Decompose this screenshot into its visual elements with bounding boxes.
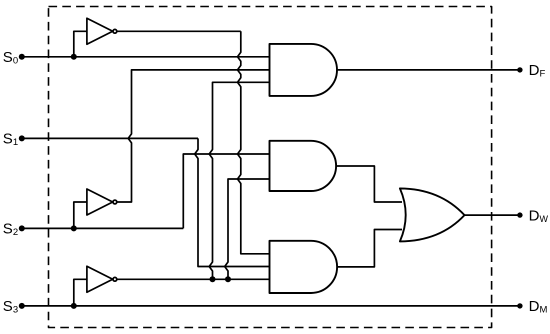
node junction on S3 [71,303,77,309]
wire S1 vertical with hop, to AND3 input 2 [195,138,270,266]
wire S0' vertical with hops, to AND3 input 1 [238,31,270,254]
wire S2 horizontal [22,227,184,229]
svg-text:S2: S2 [3,221,18,239]
wire DF output [337,69,520,71]
node junction S3' riser 1 [210,276,216,282]
node DM terminal [517,303,522,308]
wire S3 / DM horizontal [22,305,520,307]
svg-text:DM: DM [529,298,548,316]
svg-text:S0: S0 [3,49,18,67]
node S3 terminal [19,303,25,309]
wire inverter U3 output to AND3 input 3 [117,278,270,280]
dashed enclosure border [49,7,492,328]
wire S3' riser 1 with hops, to AND1 input 3 [209,82,269,279]
wire AND3 output to OR input 2 [337,230,402,267]
inverter U1 (S0) [87,18,113,44]
node DW terminal [517,212,522,217]
OR gate O1 [400,188,465,241]
wire inverter U1 input (from S0 junction) [74,31,87,57]
wire inverter U1 output to vertical drop [117,30,241,32]
svg-text:DF: DF [529,62,546,80]
node junction on S2 [71,225,77,231]
inverter U3 (S3) [87,266,113,292]
node junction S3' riser 2 [225,276,231,282]
AND gate A1 (top) [270,44,338,96]
node S2 terminal [19,225,25,231]
wire inverter U3 input (from S3 junction) [74,279,87,306]
wire AND2 output to OR input 1 [336,166,402,202]
node S0 terminal [19,54,25,60]
AND gate A2 (middle) [270,141,337,191]
wire S0 horizontal (input S0 to AND1 input 1) [22,56,270,58]
wire S2 riser to AND2 input 1 [183,154,269,228]
node S1 terminal [19,135,25,141]
node DF terminal [517,67,522,72]
wire DW output [465,214,520,216]
AND gate A3 (bottom) [270,241,338,293]
inverter U2 (S2) [87,189,113,215]
wire S1 horizontal [22,137,198,139]
svg-text:S3: S3 [3,298,18,316]
svg-text:S1: S1 [3,131,18,149]
wire inverter U2 output, up with hop over S1, to AND1 input 2 [117,70,270,202]
wire inverter U2 input (from S2 junction) [74,202,87,228]
node junction on S0 [71,54,77,60]
svg-text:DW: DW [529,208,549,225]
wire S3' riser 2 with hop, to AND2 input 2 [225,179,270,279]
